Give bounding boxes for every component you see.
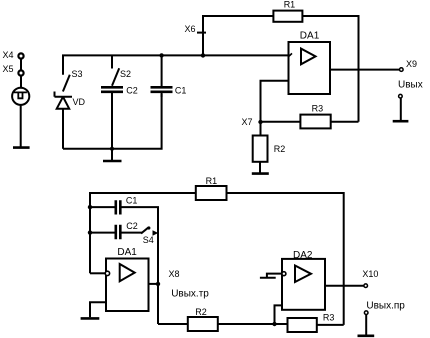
svg-text:X4: X4 [3, 50, 14, 60]
wire [20, 105, 22, 147]
op-amp DA2 box [282, 259, 325, 310]
wire [20, 59, 22, 71]
wire C1 top stub [161, 55, 163, 86]
wire [400, 98, 402, 120]
svg-text:R3: R3 [312, 103, 324, 113]
resistor R3 (top) [300, 115, 330, 129]
svg-text:Uвых.пр: Uвых.пр [366, 301, 405, 312]
wire [111, 93, 113, 161]
svg-text:DA2: DA2 [293, 250, 313, 261]
wire [161, 93, 163, 97]
op-amp DA1 (bottom) box [106, 259, 149, 312]
resistor R1 (bottom) [196, 186, 227, 200]
svg-text:R2: R2 [274, 144, 286, 154]
wire DA1 output [330, 69, 400, 71]
node X4 terminal circle [18, 53, 23, 58]
svg-text:X7: X7 [242, 117, 253, 127]
wire R3 right to vertical [331, 121, 359, 123]
node Uvyh terminal circle [399, 94, 403, 98]
svg-text:S4: S4 [143, 235, 154, 245]
op-amp DA1 input circle [105, 271, 109, 275]
wire vertical to R3 right [317, 324, 344, 326]
capacitor C1 (bottom) plates [116, 200, 121, 214]
ground under R2 [252, 172, 269, 175]
capacitor C1 plates [151, 87, 173, 92]
ground under Uvyh [393, 120, 409, 123]
op-amp DA1 (bottom) triangle [120, 264, 135, 281]
switch S4 blade [141, 228, 148, 234]
op-amp DA1 (top) box [289, 42, 331, 94]
svg-text:Uвых.тр: Uвых.тр [171, 289, 209, 300]
ground under DA1 [81, 317, 100, 320]
wire top bus (bottom circuit) [90, 193, 196, 273]
op-amp DA2 triangle [295, 266, 311, 283]
svg-text:X9: X9 [406, 59, 417, 69]
svg-text:R1: R1 [206, 176, 218, 186]
wire DA2 output [325, 285, 364, 287]
wire DA1 output to vertical [149, 283, 159, 285]
svg-text:C1: C1 [175, 86, 187, 96]
wire input 2 of DA1 [261, 81, 289, 136]
wire C1 right [122, 207, 159, 324]
switch S3 blade [63, 75, 70, 92]
zener diode VD [55, 92, 73, 109]
svg-text:X8: X8 [169, 269, 180, 279]
wire [62, 109, 64, 149]
svg-text:X10: X10 [362, 269, 378, 279]
node X6 junction [201, 53, 205, 57]
op-amp DA1 (top) triangle [301, 49, 316, 65]
wire DA1 ground branch [90, 302, 106, 317]
op-amp DA1 input arrow nub [289, 53, 293, 56]
wire C1 left [90, 206, 115, 208]
svg-text:VD: VD [73, 97, 86, 107]
svg-text:X6: X6 [185, 24, 196, 34]
wire [365, 315, 367, 335]
ground under C2 [103, 160, 122, 163]
wire bottom bus to R2 [158, 323, 188, 325]
junction [110, 147, 114, 151]
op-amp DA2 input circle [282, 272, 286, 276]
op-amp DA2 input step stub [260, 274, 282, 278]
wire X6 vertical and to R1 [203, 16, 273, 55]
wire R2 to junction [218, 323, 288, 325]
svg-text:S2: S2 [120, 69, 131, 79]
resistor R3 (bottom) [288, 318, 317, 332]
pulse generator G1 circle [12, 88, 29, 105]
wire R1 to feedback vertical [302, 16, 358, 122]
svg-text:C1: C1 [126, 195, 138, 205]
wire junction up to DA2 inverting input [275, 305, 283, 324]
resistor R2 (bottom) [188, 317, 218, 331]
wire main top bus [63, 55, 289, 74]
node X7 junction [258, 120, 262, 124]
pulse generator G1 pulse symbol [14, 92, 27, 98]
junction C2 tap [88, 230, 92, 234]
wire R2 to ground [259, 162, 261, 173]
svg-text:X5: X5 [3, 64, 14, 74]
wire [20, 76, 22, 88]
junction R2/R3/DA2 [272, 322, 276, 326]
svg-text:Uвых: Uвых [398, 80, 423, 91]
svg-text:C2: C2 [126, 221, 138, 231]
ground [13, 146, 30, 149]
resistor R1 (top) [273, 11, 302, 22]
wire to DA1 input circle [90, 272, 106, 274]
capacitor C2 plates [101, 87, 123, 92]
svg-text:R1: R1 [284, 0, 296, 9]
wire bottom bus of RC group [63, 94, 162, 149]
svg-text:S3: S3 [72, 69, 83, 79]
wire X7 to R3 [261, 121, 301, 123]
node X6 tick [197, 32, 206, 34]
svg-text:DA1: DA1 [117, 247, 137, 258]
svg-text:DA1: DA1 [300, 30, 320, 41]
junction X8 [156, 282, 160, 286]
svg-text:R3: R3 [323, 313, 335, 323]
switch S4 arrow [153, 230, 159, 236]
resistor R2 (top) [253, 136, 268, 162]
node X9 terminal circle [400, 68, 404, 72]
switch S2 blade [112, 68, 119, 86]
node X5 terminal circle [18, 70, 23, 75]
ground under Uvyh.pr [358, 334, 375, 337]
wire C2 right [122, 232, 143, 234]
wire C2 left [90, 232, 115, 234]
node X10 terminal circle [364, 284, 368, 288]
svg-text:R2: R2 [195, 307, 207, 317]
junction C1 tap [88, 205, 92, 209]
capacitor C2 top stub wire [111, 55, 113, 68]
node Uvyh.pr terminal circle [364, 311, 368, 315]
capacitor C2 (bottom) plates [116, 225, 121, 240]
svg-text:C2: C2 [126, 86, 138, 96]
switch S4 blade tip dot [147, 226, 150, 229]
junction [159, 53, 163, 57]
wire R1 to right vertical [227, 193, 344, 325]
